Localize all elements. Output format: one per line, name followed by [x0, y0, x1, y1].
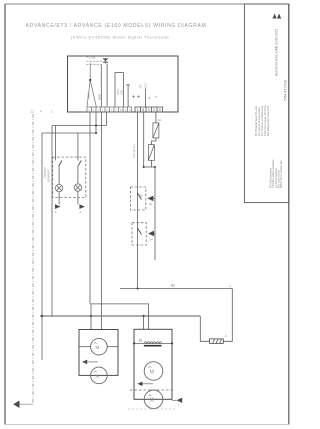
svg-text:9: 9: [148, 108, 150, 112]
wire H1 horizontal: [52, 125, 107, 127]
connector arrow 4: [148, 231, 156, 242]
wire B2 horizontal: [120, 288, 232, 290]
lamp 1 feed wire: [54, 126, 56, 161]
svg-text:ADVANCE/ET3 / ADVANCE (E160 MO: ADVANCE/ET3 / ADVANCE (E160 MODELS) WIRI…: [26, 23, 207, 29]
svg-text:12V: 12V: [144, 83, 148, 88]
lamp unit dashed box: [53, 157, 86, 197]
svg-text:Autoterm drive UAB (0)43 0312: Autoterm drive UAB (0)43 0312: [275, 29, 279, 76]
link R1 to R2: [151, 138, 156, 145]
svg-text:MSW Door switch fan: MSW Door switch fan: [279, 160, 283, 188]
heater box (centre): [134, 329, 172, 399]
pump motor M4: [144, 390, 163, 409]
switch S1: [59, 161, 62, 167]
wire H2 horizontal: [42, 132, 96, 134]
ECU internal bracket pair: [115, 73, 124, 107]
terminal cell marks: [88, 108, 131, 112]
wire: strip to resistor line: [143, 112, 145, 167]
wire V2 long vertical: [101, 112, 103, 330]
svg-text:2: 2: [153, 108, 155, 112]
resistor R2: [148, 145, 154, 161]
wire B2 right drop to fuse: [223, 289, 232, 342]
svg-text:M: M: [150, 369, 154, 375]
svg-text:8: 8: [142, 108, 144, 112]
svg-text:EL: EL: [139, 339, 143, 343]
lamp H2 circle: [74, 184, 81, 191]
svg-text:32: 32: [149, 202, 153, 206]
battery connector arrow: [13, 401, 19, 409]
bus drop to heater box: [143, 316, 145, 329]
legend panel box: [244, 4, 288, 203]
lamp H1 circle: [55, 184, 62, 191]
connector arrow 1: [55, 204, 61, 209]
svg-text:M: M: [150, 398, 154, 404]
svg-text:T: T: [178, 404, 180, 408]
wire L2: [41, 133, 43, 360]
dashed partition line: [130, 389, 175, 391]
svg-text:BRN/WHT: BRN/WHT: [47, 169, 51, 182]
connector arrow 3: [147, 196, 155, 206]
lamp 2 exit wire: [77, 191, 79, 204]
wire WA centre vertical: [137, 112, 139, 289]
connector arrow at pump: [177, 398, 183, 403]
svg-text:M2 Diagnostic fuse unit: M2 Diagnostic fuse unit: [266, 106, 270, 136]
svg-text:34: 34: [150, 238, 154, 242]
battery line L1 (dash-dot): [32, 114, 34, 404]
fan box (left): [79, 330, 118, 376]
plus marks: [132, 95, 140, 98]
upper link wire: [91, 304, 149, 329]
resistor R1: [155, 112, 157, 123]
lamp 1 exit wire: [58, 192, 60, 205]
switch contact in box 1: [138, 193, 142, 200]
fan motor M2: [91, 367, 108, 384]
switch S2: [78, 161, 81, 167]
wire: terminal stub to H2: [95, 112, 97, 133]
resistor bottom node line: [144, 166, 155, 168]
svg-text:B2: B2: [171, 284, 175, 288]
svg-text:7454 4717/08: 7454 4717/08: [284, 80, 288, 101]
link drop at left: [90, 304, 92, 330]
heater fan motor M3: [144, 362, 163, 381]
svg-text:VIO: VIO: [120, 89, 124, 95]
antenna / bowtie symbol: [103, 59, 107, 64]
bus drop to fuse: [200, 316, 209, 341]
ECU box U1: [68, 56, 179, 112]
ECU internal wire 4 with tick: [126, 85, 130, 107]
thermostat dashed box 2: [132, 223, 146, 245]
svg-text:M: M: [96, 345, 100, 350]
terminal strip left group: [87, 107, 132, 112]
lower dashed boundary: [128, 408, 176, 410]
connector arrow 2: [79, 204, 85, 209]
terminal strip right group with pin numbers: [135, 107, 163, 112]
arrow in left fan box: [82, 360, 87, 365]
arrow in heater box: [137, 381, 142, 386]
ECU internal wire 2: [100, 64, 102, 107]
wire V1 long vertical: [89, 112, 91, 304]
bus junction dots: [41, 315, 43, 317]
legend parts list column 1 (rotated): [254, 105, 270, 136]
fan motor M1: [91, 338, 108, 355]
svg-text:BRN: BRN: [98, 94, 102, 100]
svg-text:0: 0: [159, 108, 161, 112]
lamp 2 feed wire: [77, 133, 79, 161]
ECU internal wire 3: [106, 64, 108, 107]
svg-text:1: 1: [137, 108, 139, 112]
ECU internal dashed link lines: [87, 60, 103, 62]
ECU internal wire with Y split: [87, 63, 96, 107]
wire R2 to node line: [150, 160, 152, 167]
svg-text:M: M: [96, 374, 100, 379]
main bus wire: [40, 315, 200, 317]
fuse F2: [210, 339, 224, 344]
svg-text:24: 24: [139, 84, 143, 88]
svg-text:12V (C.U.): 12V (C.U.): [132, 144, 136, 158]
logo mark: [273, 14, 282, 19]
wire: terminal stub to H1: [106, 112, 108, 126]
ECU internal wire 5: [145, 89, 147, 107]
switch contact in box 2: [138, 228, 142, 235]
svg-text:36: 36: [140, 194, 144, 198]
svg-text:F1 20A: F1 20A: [87, 55, 96, 59]
wire L3: [51, 126, 53, 317]
svg-text:(EWCU EV3829N) Model Digital T: (EWCU EV3829N) Model Digital Thermostat: [71, 35, 170, 40]
legend parts list column 2 (rotated): [268, 159, 283, 188]
svg-text:2A: 2A: [158, 118, 162, 122]
wire WB vertical: [154, 167, 156, 260]
svg-text:F: F: [40, 110, 42, 114]
svg-text:RED: RED: [87, 92, 91, 99]
svg-text:12: 12: [31, 110, 35, 114]
thermostat dashed box 1: [130, 187, 145, 210]
